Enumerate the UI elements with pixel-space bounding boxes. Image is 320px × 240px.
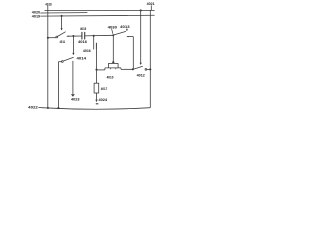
leader 4030 — [112, 29, 113, 34]
capacitor C2 4016 left plate line — [93, 36, 95, 50]
svg-text:4018: 4018 — [45, 1, 52, 6]
wire 4023 output branch — [72, 61, 74, 94]
wire 4013 drop to 4012 node — [132, 37, 134, 70]
wire 4020 line — [40, 12, 87, 14]
wire 4016 down to resistor 4017 — [95, 49, 97, 83]
capacitor C1 4015 right plate — [84, 32, 86, 40]
transistor Q1 4010 channel line — [105, 67, 121, 69]
switch S3 4013 leader arrowhead — [126, 29, 128, 31]
svg-text:4024: 4024 — [99, 97, 108, 102]
wire 4014 drop to bottom rail — [57, 62, 59, 108]
switch S1 4011 movable-contact arrow — [61, 28, 63, 30]
svg-text:4017: 4017 — [101, 86, 108, 91]
transistor Q1 4010 top electrode bar — [108, 62, 118, 64]
switch S4 4012 pivot circle — [145, 69, 147, 71]
node junction dot at capacitor 4016 branch — [93, 35, 95, 37]
svg-text:4022: 4022 — [28, 104, 38, 109]
resistor R1 4017 box — [94, 83, 99, 93]
node junction dot bottom rail left-center — [57, 107, 59, 109]
switch S2 4014 blade — [63, 57, 74, 61]
wire bottom rail — [38, 108, 150, 110]
transistor Q1 4010 left side — [107, 63, 109, 68]
svg-text:4016: 4016 — [83, 48, 92, 53]
wire left rail — [47, 5, 49, 108]
switch S1 4011 pivot circle — [56, 36, 58, 38]
wire 4011 to capacitor 4015 — [68, 35, 82, 37]
switch S4 4012 blade — [133, 66, 142, 69]
node junction dot on top rail — [140, 9, 142, 11]
transistor Q1 4010 channel ticks — [111, 68, 116, 69]
wire 4019 line — [40, 14, 154, 17]
svg-text:4016: 4016 — [78, 39, 88, 44]
wire switch 4011 upper branch — [61, 16, 63, 29]
switch S1 4011 fixed contact arrowhead — [66, 35, 68, 37]
switch S3 4013 leader arrow shaft — [126, 28, 128, 29]
svg-text:4023: 4023 — [71, 96, 80, 101]
node junction dot 4012 left node — [132, 68, 134, 70]
transistor Q1 4010 right side — [117, 63, 119, 68]
wire top node line to transistor drain — [85, 34, 113, 37]
node junction dot at 4014 branch — [72, 35, 74, 37]
svg-text:4013: 4013 — [120, 24, 130, 29]
capacitor C1 4015 left plate — [81, 32, 83, 40]
node junction dot on 4019 line — [61, 15, 63, 17]
switch S3 4013 fixed contact arrowhead — [126, 36, 128, 38]
wire 4017 to 4024 output — [96, 93, 98, 100]
svg-text:4015: 4015 — [80, 26, 87, 31]
node junction dot on left rail — [47, 37, 49, 39]
wire 4013 right wire — [128, 36, 133, 38]
switch S2 4014 pivot circle — [61, 61, 63, 63]
svg-text:4010: 4010 — [107, 75, 114, 80]
leader 4021 — [150, 5, 152, 10]
wire transistor drain vertical — [112, 35, 114, 62]
wire right rail — [149, 10, 151, 107]
svg-text:4019: 4019 — [32, 14, 41, 19]
wire top rail — [45, 9, 155, 11]
node junction dot gate node — [95, 69, 97, 71]
node 4024 tick mark — [96, 103, 99, 105]
node 4024 output arrowhead — [95, 100, 97, 103]
wire gate to transistor — [97, 69, 105, 71]
svg-text:4012: 4012 — [137, 72, 146, 77]
wire 4014 branch vertical — [72, 36, 74, 53]
wire 4012 right stub — [147, 68, 151, 70]
wire transistor to switch 4012 — [121, 68, 133, 70]
node 4023 output arrowhead — [71, 94, 75, 97]
node junction dot bottom rail at left rail — [47, 107, 49, 109]
wire 4012 upper branch from top rail — [140, 10, 142, 63]
svg-text:4021: 4021 — [147, 1, 156, 6]
wire 4011 left stub — [48, 37, 56, 39]
switch S2 4014 upper fixed-contact arrow — [72, 53, 74, 55]
wire 4014 left stub — [58, 61, 61, 63]
transistor Q1 4010 right leg — [120, 68, 122, 70]
svg-text:4030: 4030 — [108, 25, 118, 30]
node junction dot on top wire at drain — [112, 34, 114, 36]
svg-text:4011: 4011 — [60, 39, 66, 44]
switch S4 4012 upper fixed-contact arrow — [140, 63, 142, 65]
svg-text:4014: 4014 — [77, 55, 87, 60]
switch S1 4011 blade — [57, 32, 65, 37]
node transistor drain dot — [112, 61, 114, 63]
transistor Q1 4010 left leg — [104, 68, 106, 70]
switch S3 4013 blade — [114, 31, 126, 35]
node junction dot on right rail — [149, 68, 151, 70]
capacitor C2 4016 right plate — [95, 43, 97, 50]
